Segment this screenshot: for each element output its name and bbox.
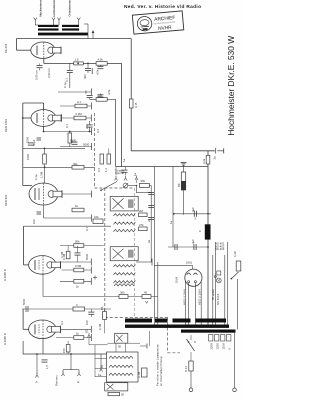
- svg-text:1,5: 1,5: [45, 365, 49, 369]
- resistor R22: [184, 352, 193, 372]
- svg-text:50k: 50k: [141, 179, 146, 183]
- wire: horizontal feed y=150.8 to right bus: [131, 150, 215, 152]
- svg-text:Sperrkr.: Sperrkr.: [115, 171, 125, 175]
- stamp header text: [124, 4, 201, 10]
- svg-text:200: 200: [85, 124, 89, 129]
- label 6,3V: [233, 251, 237, 257]
- svg-text:0,1M: 0,1M: [137, 371, 141, 378]
- wire: V2 grid left: [23, 117, 31, 119]
- capacitor C19b: [148, 205, 154, 207]
- resistor R11: [93, 215, 103, 224]
- wire: heater pair x=157.8: [157, 262, 159, 326]
- svg-text:AEG U 1064: AEG U 1064: [198, 289, 202, 305]
- tube V1 RE604: [31, 42, 61, 58]
- wire: V4 cathode drop: [42, 274, 44, 297]
- svg-text:0,1M: 0,1M: [60, 251, 64, 258]
- capacitor C6 cathode: [32, 132, 41, 147]
- transformer TR1 secondary bar: [181, 330, 236, 333]
- svg-text:1a: 1a: [133, 172, 137, 176]
- resistor R9: [97, 154, 104, 172]
- antenna terminal labels: [39, 0, 72, 17]
- capacitor C12: [88, 309, 94, 317]
- wire: right column x=227.5: [227, 242, 229, 326]
- svg-text:50k: 50k: [75, 239, 80, 243]
- svg-text:27k: 27k: [139, 223, 144, 227]
- ground G1 with resistor: [177, 163, 187, 215]
- rectifier tube V6: [185, 269, 202, 286]
- capacitor C0 cathode bypass: [35, 63, 43, 80]
- svg-text:50: 50: [121, 393, 125, 397]
- resistor R20: [137, 368, 147, 378]
- capacitor C19c: [148, 217, 154, 219]
- svg-text:Lichtantenne: Lichtantenne: [52, 0, 56, 17]
- wire: drop from R23 junction: [136, 186, 151, 263]
- tube V3 REN904: [29, 183, 62, 205]
- wire: V5 cathode drop: [42, 339, 44, 354]
- resistor R2 on anode line: [96, 57, 107, 65]
- trimmer T2 box: [110, 247, 138, 261]
- wire: terminal drops: [35, 22, 78, 25]
- svg-text:RE 604: RE 604: [4, 43, 8, 53]
- capacitor C20 series on feed line: [213, 148, 224, 160]
- svg-text:A: A: [199, 229, 201, 233]
- resistor R15b: [74, 280, 84, 289]
- svg-text:4µF: 4µF: [191, 239, 195, 244]
- label tube V5: [3, 333, 7, 345]
- wire: row y=106: [60, 103, 92, 110]
- resistor R14b vertical: [62, 246, 70, 261]
- svg-text:REN 904: REN 904: [4, 194, 8, 206]
- svg-text:1a: 1a: [122, 158, 126, 162]
- resistor R24 below T4: [108, 392, 125, 396]
- svg-text:0,90 cm: 0,90 cm: [35, 69, 39, 80]
- trimmer T3 box: [108, 333, 141, 352]
- svg-text:0,1µ: 0,1µ: [63, 82, 67, 88]
- capacitor C21 series: [22, 298, 28, 312]
- coil L2 primary bar: [62, 25, 79, 27]
- IF transformer W2 coil 1: [113, 265, 135, 267]
- svg-text:0,2M: 0,2M: [76, 112, 83, 116]
- wire: anode line tube V1 y=63.4: [44, 62, 122, 64]
- capacitor C18 pair: [122, 170, 128, 175]
- wire: V3 cathode down: [44, 205, 92, 222]
- svg-text:1a: 1a: [169, 220, 173, 224]
- transformer TR1 core bar: [125, 325, 229, 328]
- wire: mains lead left: [189, 371, 193, 392]
- svg-text:B2: B2: [85, 329, 89, 333]
- svg-text:0,3: 0,3: [60, 321, 64, 325]
- resistor R13: [139, 223, 148, 231]
- svg-text:150: 150: [62, 348, 66, 353]
- svg-text:0,3: 0,3: [97, 168, 101, 172]
- tube V5 H4080D: [29, 320, 61, 339]
- svg-text:125V: 125V: [216, 343, 220, 350]
- svg-text:1,5: 1,5: [75, 58, 79, 62]
- svg-text:50: 50: [70, 139, 74, 143]
- wire: V6 top feed: [154, 266, 192, 269]
- wire: drop x=115.6: [115, 99, 117, 166]
- grid terminals near filter: [100, 167, 127, 192]
- voltage selector boxes: [209, 335, 232, 350]
- resistor R4 on x=133 line: [129, 99, 138, 108]
- resistor R12: [139, 209, 148, 217]
- svg-text:360: 360: [120, 290, 125, 294]
- wire: V5 grid feed corner: [23, 309, 29, 329]
- wire: V1 grid to antenna bus: [17, 39, 31, 51]
- IF transformer W1 coil 3: [113, 229, 135, 231]
- wire: middle vertical x=154.3: [153, 167, 155, 327]
- svg-text:H 4080 D: H 4080 D: [3, 333, 7, 345]
- svg-text:4,5k: 4,5k: [98, 57, 104, 61]
- capacitor C2b below R2: [96, 65, 104, 75]
- resistor R8: [72, 162, 84, 169]
- svg-text:50 qNdA: 50 qNdA: [211, 289, 215, 300]
- wire: left grid bus x=22.8: [22, 103, 24, 186]
- wire: right column x=215.4: [214, 242, 216, 326]
- svg-text:4,5k: 4,5k: [96, 69, 100, 75]
- switch S1 mains: [187, 335, 197, 351]
- pot wiper arrow: [146, 301, 148, 303]
- coil L3 main tuning bar: [38, 33, 88, 36]
- capacitor C14: [175, 244, 177, 250]
- potentiometer P1: [123, 183, 136, 188]
- wire: V4 anode row y=270: [62, 267, 92, 274]
- svg-text:A: A: [36, 380, 38, 384]
- capacitor C4: [87, 95, 93, 99]
- dashed screen box top edge: [94, 187, 134, 189]
- IF transformer W1 coil 1: [113, 214, 135, 216]
- capacitor C17: [42, 354, 50, 369]
- stamp box ARCHIEF NVHR: [132, 11, 183, 34]
- svg-text:1500: 1500: [26, 136, 30, 143]
- dashed screen box left edge: [104, 188, 106, 318]
- wire: right column x=224.8: [224, 255, 226, 326]
- terminal pickup: [135, 176, 138, 184]
- dashed screen box bottom edge: [105, 317, 169, 319]
- svg-text:1,2: 1,2: [104, 168, 108, 172]
- svg-text:30k: 30k: [73, 162, 78, 166]
- svg-text:0,5M: 0,5M: [75, 264, 82, 268]
- antenna terminal A2: [52, 18, 55, 23]
- wire: V2 cathode down and right: [44, 126, 92, 135]
- svg-text:40: 40: [144, 290, 148, 294]
- wire: V4 grid feed corner: [24, 226, 29, 265]
- wire: V4 grid row y=262: [60, 259, 91, 266]
- svg-text:AEG U 1064: AEG U 1064: [183, 289, 187, 305]
- terminal A branch: [35, 354, 38, 384]
- label NS401A: [216, 294, 220, 305]
- resistor R10: [72, 204, 84, 212]
- capacitor C7: [26, 136, 34, 145]
- wire: row y=247: [168, 246, 208, 248]
- labels NS stack: [215, 242, 225, 252]
- svg-text:2a: 2a: [147, 239, 151, 243]
- svg-text:0,15: 0,15: [134, 102, 138, 108]
- label tube V2: [4, 119, 8, 132]
- svg-text:R 14: R 14: [184, 366, 188, 372]
- wire: row y=262 with cap: [136, 259, 152, 266]
- wire: horizontal y=166.5 to right bus: [116, 166, 208, 168]
- resistor R16 in row: [73, 303, 85, 311]
- resistor R19: [142, 290, 151, 298]
- wire: coil right connection with arrow: [84, 24, 94, 39]
- svg-text:S: S: [194, 340, 196, 344]
- svg-text:REN 1204: REN 1204: [4, 119, 8, 132]
- svg-text:1500: 1500: [26, 153, 30, 160]
- wire: speaker feed x=149.5: [149, 331, 151, 346]
- wire: row y=167.3: [23, 166, 95, 168]
- svg-text:50k: 50k: [98, 93, 103, 97]
- svg-text:0,1: 0,1: [85, 227, 89, 231]
- switch S2: [231, 272, 239, 279]
- antenna terminal A1: [34, 18, 37, 23]
- tube V4 H4080D: [29, 256, 61, 275]
- svg-text:Ortsantenne: Ortsantenne: [68, 0, 72, 17]
- resistor R14: [74, 239, 84, 247]
- svg-text:0,3: 0,3: [96, 129, 100, 133]
- wire: V3 grid to left bus: [23, 185, 32, 187]
- wire: stage1 row y=88: [58, 89, 92, 96]
- svg-text:B1: B1: [100, 364, 104, 368]
- wire: left stub to bottom bus: [22, 341, 24, 354]
- svg-text:5000: 5000: [83, 143, 90, 147]
- svg-text:NS 401A: NS 401A: [216, 294, 220, 305]
- resistor R17: [74, 332, 84, 340]
- resistor R7 vertical below grid row: [40, 148, 47, 183]
- svg-text:NS 403: NS 403: [215, 247, 225, 251]
- label tube V6: [175, 276, 179, 283]
- label speaker text: [155, 344, 163, 386]
- filter coil 2: [109, 365, 133, 367]
- svg-text:5000: 5000: [22, 298, 26, 305]
- svg-text:0,1µ: 0,1µ: [34, 174, 38, 180]
- svg-text:2M: 2M: [139, 209, 144, 213]
- label tube V3: [4, 194, 8, 206]
- svg-text:100: 100: [85, 320, 89, 325]
- capacitor C15: [194, 244, 196, 250]
- svg-text:Hochantenne: Hochantenne: [39, 0, 43, 17]
- IF transformer W2 coil 2: [113, 273, 135, 275]
- svg-text:Rahmen: Rahmen: [55, 375, 59, 386]
- svg-text:100: 100: [32, 219, 36, 224]
- resistor R6 vertical: [68, 132, 72, 147]
- resistor R18: [119, 290, 128, 298]
- svg-text:H 4080 D: H 4080 D: [3, 269, 7, 281]
- wire: V6 pins down: [183, 281, 202, 327]
- resistor R15: [74, 264, 84, 272]
- wire: V2 anode right: [61, 115, 91, 122]
- choke D1 black: [199, 224, 211, 239]
- svg-text:400: 400: [83, 74, 87, 79]
- frame antenna terminals: [55, 354, 81, 386]
- svg-text:3,6k: 3,6k: [202, 158, 206, 164]
- svg-text:1064: 1064: [175, 276, 179, 283]
- svg-text:0,1: 0,1: [65, 124, 69, 128]
- capacitor C10: [75, 246, 81, 263]
- resistor R9b: [104, 148, 111, 172]
- wire: stage5 row y=309: [22, 308, 111, 310]
- svg-text:0,1: 0,1: [77, 100, 81, 104]
- svg-text:1061: 1061: [186, 261, 193, 265]
- wire: right lead x=237.5 switch to transformer: [237, 279, 239, 330]
- coil L1 secondary bar: [38, 28, 59, 30]
- wire: right column x=212.8: [212, 255, 214, 326]
- svg-text:4,5k: 4,5k: [107, 89, 111, 95]
- resistor R21 on HT bus: [202, 155, 210, 164]
- capacitor C1: [65, 63, 73, 88]
- filter coil 1: [109, 356, 133, 358]
- label text stack: [115, 169, 125, 176]
- capacitor C2: [83, 63, 92, 79]
- svg-text:Ned. Ver. v. Historie v/d Radi: Ned. Ver. v. Historie v/d Radio: [124, 4, 201, 10]
- wire: R3 feed row y=99.4: [90, 98, 116, 100]
- svg-text:6,3V: 6,3V: [233, 251, 237, 257]
- wire: stage4 row y=245.5: [60, 245, 104, 247]
- capacitor stub right of T3: [140, 344, 147, 349]
- svg-text:50: 50: [118, 345, 122, 349]
- wire: bottom bus y=354: [23, 353, 107, 355]
- capacitor C13: [194, 211, 196, 221]
- svg-text:B8: B8: [177, 183, 181, 187]
- output coil zigzag: [114, 284, 134, 286]
- wire: row y=296.5: [43, 296, 158, 298]
- svg-text:4µF: 4µF: [191, 207, 195, 212]
- wire: filter left bus: [89, 345, 108, 377]
- svg-text:220V: 220V: [210, 343, 214, 350]
- resistor R1 on anode line: [74, 58, 84, 65]
- svg-text:B6: B6: [100, 306, 104, 310]
- wire: stage4 row y=281.3: [60, 278, 91, 285]
- svg-text:3a: 3a: [213, 156, 217, 160]
- wire: V3 anode to filter: [62, 191, 92, 198]
- trimmer T4 small box: [105, 383, 128, 391]
- resistor R17b: [62, 341, 70, 354]
- wire: V5 anode row y=329.3: [61, 326, 92, 333]
- dashed tuner box edge x=94.4: [93, 113, 95, 188]
- transformer TR1 primary segmented bar: [125, 319, 226, 323]
- svg-text:10k: 10k: [94, 215, 99, 219]
- svg-text:Fa: Fa: [98, 373, 102, 377]
- wire: V5 lower row y=337.5: [56, 334, 91, 341]
- svg-text:110V: 110V: [222, 343, 226, 349]
- capacitor C19: [148, 192, 154, 194]
- IF transformer W2 coil 3: [113, 281, 135, 283]
- wire: V1 cathode down: [43, 58, 45, 63]
- IF transformer W1 coil 2: [113, 222, 135, 224]
- svg-text:0,1M: 0,1M: [98, 323, 102, 330]
- filter coil 3: [109, 373, 133, 375]
- value labels misc: [26, 67, 215, 368]
- resistor R25 drop to output filter: [98, 309, 106, 333]
- svg-text:NVHR: NVHR: [158, 25, 173, 32]
- svg-text:Hochmeister DKr.E. 530 W: Hochmeister DKr.E. 530 W: [226, 35, 236, 136]
- terminal B2: [85, 329, 91, 345]
- wire: right HT bus x=208: [207, 151, 209, 326]
- svg-text:0,1: 0,1: [65, 78, 69, 82]
- wire: drop x=173: [172, 167, 174, 248]
- svg-text:2,90 cm: 2,90 cm: [47, 67, 51, 78]
- wire: stage2 row y=146.5: [60, 143, 92, 150]
- wire: row y=214.8: [174, 213, 211, 215]
- dashed screen box right edge: [134, 188, 136, 318]
- antenna terminal A3: [57, 18, 60, 23]
- wire: IF1 output row y=226.2: [24, 225, 112, 227]
- capacitor C8: [70, 139, 78, 145]
- label tube V1: [4, 43, 8, 53]
- coil L1 primary bar: [38, 25, 59, 27]
- svg-text:an Umschaltvorrichtung: an Umschaltvorrichtung: [159, 356, 163, 386]
- tube V2 REN1204: [31, 110, 62, 127]
- svg-text:2a: 2a: [147, 218, 151, 222]
- title Hochmeister DKr.E. 530 W: [226, 35, 236, 136]
- resistor R3b: [75, 100, 87, 108]
- wire: grid feed row y=148.4: [23, 147, 85, 149]
- svg-text:1,5M: 1,5M: [40, 171, 44, 178]
- svg-text:E: E: [78, 380, 80, 384]
- wire: main antenna bus horizontal y=38.5: [17, 38, 132, 40]
- wire: mains lead right: [233, 333, 237, 392]
- antenna terminal A4: [77, 18, 80, 23]
- fuse box F1: [236, 261, 241, 271]
- wire: V2 top cap to left bus: [23, 103, 44, 110]
- dashed box drop x=169: [167, 318, 180, 353]
- resistor R3: [96, 93, 107, 101]
- svg-text:5000: 5000: [85, 253, 89, 260]
- resistor R23: [136, 179, 150, 188]
- capacitor C9: [32, 212, 41, 224]
- wire: right drop from antenna bus x=133: [130, 39, 132, 151]
- trimmer T1 box: [110, 196, 138, 211]
- wire: vertical x=122: [121, 63, 123, 166]
- lamp E1: [216, 271, 221, 283]
- svg-text:50: 50: [84, 90, 88, 94]
- capacitor C4b above R3: [97, 94, 103, 98]
- capacitor C5: [87, 121, 93, 132]
- label tube V4: [3, 269, 7, 281]
- node cross mark: [93, 276, 97, 280]
- output filter box: [107, 352, 139, 382]
- terminal Fa: [98, 354, 103, 377]
- coil L2 secondary bar: [62, 28, 79, 30]
- resistor R5: [74, 112, 86, 120]
